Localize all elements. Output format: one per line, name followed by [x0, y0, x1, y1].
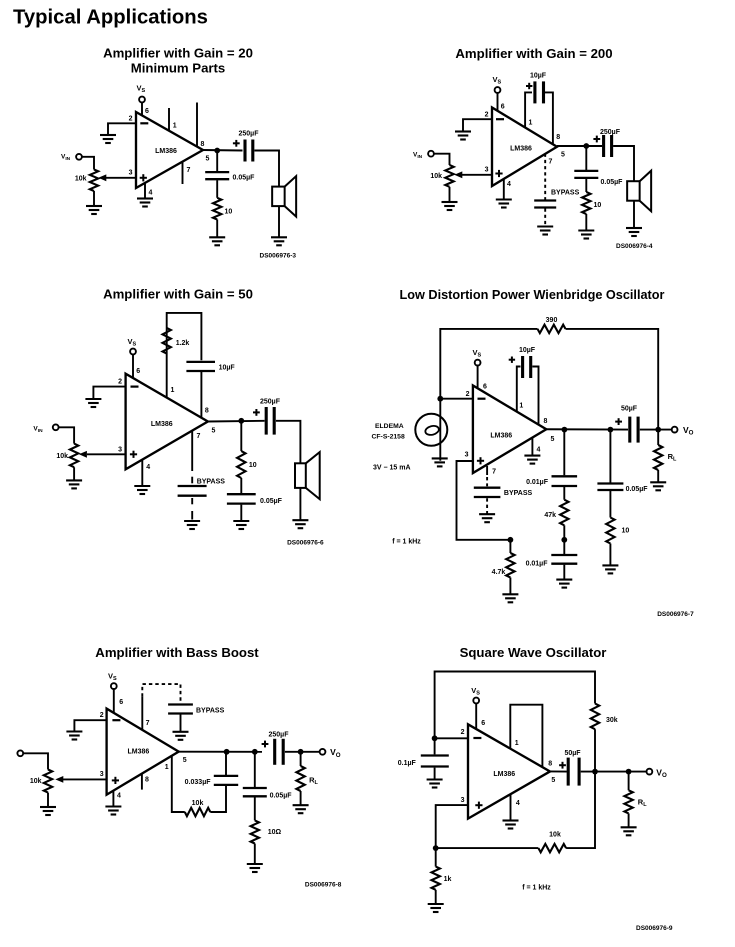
feedback top wire left: [440, 329, 537, 399]
resistor value 10 c2: [594, 202, 602, 209]
svg-text:0.033µF: 0.033µF: [185, 779, 212, 786]
wiper arrowhead c2: [454, 171, 462, 178]
resistor 47k: [560, 500, 568, 526]
speaker c3: [295, 452, 320, 499]
wire node to 4.7k: [509, 540, 511, 553]
svg-text:50µF: 50µF: [564, 750, 581, 757]
svg-text:50µF: 50µF: [621, 406, 638, 413]
figure number DS006976-9: [636, 925, 673, 932]
svg-text:7: 7: [197, 433, 201, 440]
input label VIN: [61, 154, 71, 163]
wire RL to ground c4: [657, 470, 659, 482]
wire pin 3 to wiper c2: [462, 174, 492, 176]
potentiometer value 10k c3: [56, 453, 68, 460]
wire 250uF to speaker c3: [276, 421, 301, 464]
output node junction: [214, 148, 220, 154]
wire pot to ground c5: [47, 793, 49, 807]
svg-text:5: 5: [212, 428, 216, 435]
wire 0.05uF to ground c3: [240, 505, 242, 521]
pin 8 label c5: [145, 777, 149, 784]
RL label c5: [309, 776, 318, 787]
node pin 2 c6: [432, 735, 438, 741]
output wire pin 5: [203, 149, 243, 152]
resistor value 47k: [544, 512, 556, 519]
svg-text:7: 7: [492, 469, 496, 476]
supply label VS: [137, 84, 146, 95]
pin 7 dashed to bypass cap: [544, 154, 546, 200]
non-inverting plus c3: [130, 451, 137, 458]
potentiometer 10k c3: [70, 444, 78, 468]
op-amp label LM386 c5: [128, 749, 150, 756]
pin 6 label c3: [136, 368, 140, 375]
output node RL c6: [626, 769, 632, 775]
pin 3 label c2: [485, 167, 489, 174]
wire node to RL c4: [657, 430, 659, 445]
pin 1 stub: [168, 108, 170, 131]
lamp rating 3V - 15 mA: [373, 464, 411, 471]
capacitor BYPASS c4: [474, 488, 501, 497]
resistor value 10 c3: [249, 462, 257, 469]
capacitor 0.05&#181;F c5: [243, 788, 267, 796]
RL label c6: [638, 798, 647, 809]
svg-text:1: 1: [171, 387, 175, 394]
svg-text:ELDEMA: ELDEMA: [375, 423, 404, 430]
capacitor value 250&#181;F c5: [269, 732, 290, 739]
pin 7 label c2: [549, 159, 553, 166]
ground below bypass c2: [537, 227, 553, 235]
svg-text:1: 1: [165, 764, 169, 771]
pin 6 label c4: [483, 384, 487, 391]
output node 0.033 c5: [224, 749, 230, 755]
capacitor 250&#181;F c5: [275, 739, 284, 765]
svg-text:4: 4: [507, 181, 511, 188]
wire pin 6 to VS: [141, 102, 143, 116]
potentiometer value 10k: [75, 176, 87, 183]
RL label c4: [668, 452, 677, 463]
ground below resistor c2: [578, 231, 594, 239]
svg-text:3V − 15 mA: 3V − 15 mA: [373, 464, 411, 471]
svg-text:3: 3: [100, 771, 104, 778]
bypass label c2: [551, 190, 580, 197]
bottom node c6: [433, 845, 439, 851]
wire resistor 10 to ground c4: [609, 544, 611, 566]
svg-text:8: 8: [145, 777, 149, 784]
inverting minus c4: [478, 398, 486, 400]
capacitor 50&#181;F c6: [568, 758, 579, 786]
pin 4 label c3: [146, 464, 150, 471]
pin 4 stub to ground c4: [531, 438, 533, 456]
wire pin 2 to ground c5: [74, 720, 106, 731]
pin 6 label: [145, 108, 149, 115]
op-amp label LM386 c6: [493, 771, 515, 778]
capacitor 0.05&#181;F c4: [597, 484, 623, 491]
pin 4 label c2: [507, 181, 511, 188]
pin 2 label c6: [461, 729, 465, 736]
wire RL to ground c6: [628, 813, 630, 827]
non-inverting plus c4: [477, 457, 484, 464]
wire node to RL c5: [300, 752, 302, 766]
wire input to potentiometer c5: [23, 753, 48, 769]
pin 2 label c2: [485, 112, 489, 119]
pin 7 stub: [182, 162, 184, 184]
capacitor value 10&#181;F c4: [519, 347, 536, 354]
circuit 5 title: [95, 645, 259, 660]
capacitor 0.05&#181;F c2: [574, 171, 598, 178]
svg-text:4: 4: [516, 800, 520, 807]
wire VIN to potentiometer c3: [59, 427, 75, 443]
capacitor BYPASS c2: [534, 201, 556, 208]
ground below 4.7k: [502, 594, 518, 602]
ground at pin 2 c5: [66, 732, 82, 740]
pin 6 label c2: [501, 104, 505, 111]
svg-text:BYPASS: BYPASS: [504, 490, 533, 497]
polarity plus of 10uF c4: [509, 357, 515, 363]
svg-text:Amplifier with Bass Boost: Amplifier with Bass Boost: [95, 645, 259, 660]
svg-text:10: 10: [249, 462, 257, 469]
capacitor value 0.05&#181;F c5: [270, 793, 293, 800]
pin 8 label c4: [544, 418, 548, 425]
svg-text:0.05µF: 0.05µF: [601, 179, 624, 186]
pin 1 label c3: [171, 387, 175, 394]
svg-text:0.05µF: 0.05µF: [260, 498, 283, 505]
output node B c4: [608, 427, 614, 433]
wire pin 6 to VS c5: [113, 689, 115, 713]
circuit 6 title: [460, 645, 607, 660]
ground below speaker c2: [626, 228, 642, 236]
svg-text:2: 2: [461, 729, 465, 736]
output label VO c5: [330, 747, 341, 759]
wire 50uF to Vo: [640, 429, 672, 431]
op-amp LM386 U2: [492, 108, 557, 187]
wire pin 2 to ground: [108, 123, 136, 135]
input terminal VIN c2: [428, 151, 434, 157]
wire potentiometer to ground: [93, 191, 95, 206]
capacitor value 0.05&#181;F c3: [260, 498, 283, 505]
resistor 30k: [591, 704, 599, 730]
bottom node 47k: [561, 537, 567, 543]
output node feedback c6: [592, 769, 598, 775]
bypass label c3: [197, 479, 226, 486]
resistor RL c4: [654, 445, 662, 470]
inverting minus c3: [131, 386, 139, 388]
svg-text:DS006976-6: DS006976-6: [287, 539, 324, 546]
wire node A to 0.01uF c4: [563, 430, 565, 476]
pin 3 label c4: [465, 452, 469, 459]
bottom rail left c6: [436, 847, 539, 849]
figure number DS006976-8: [305, 881, 342, 888]
capacitor value 0.05&#181;F c2: [601, 179, 624, 186]
pin 5 label c4: [551, 436, 555, 443]
input terminal VIN c3: [53, 424, 59, 430]
ground below speaker c3: [292, 520, 308, 528]
pin 8 stub c5: [141, 774, 143, 790]
inverting minus c6: [473, 737, 481, 739]
ground at pin 4 c4: [524, 456, 540, 464]
circuit 3 title: [103, 287, 253, 302]
pin 4 stub to ground c3: [141, 460, 143, 486]
svg-text:1: 1: [529, 120, 533, 127]
op-amp LM386 U1: [136, 112, 203, 188]
svg-text:0.05µF: 0.05µF: [626, 486, 649, 493]
svg-text:10k: 10k: [549, 832, 561, 839]
wire node to RL c6: [628, 772, 630, 791]
svg-text:7: 7: [549, 159, 553, 166]
svg-text:CF-S-2158: CF-S-2158: [372, 434, 405, 441]
inverting minus c5: [112, 719, 120, 721]
pin 7 dash segment c3: [191, 477, 193, 484]
rail to 0.033uF c5: [210, 785, 226, 812]
pin 5 label c3: [212, 428, 216, 435]
pin 5 label c2: [561, 152, 565, 159]
figure number DS006976-4: [616, 243, 653, 250]
ground below potentiometer c2: [442, 202, 458, 210]
pin 2 label c5: [100, 712, 104, 719]
resistor value 1k: [444, 876, 452, 883]
top wire 1.2k to 10uF: [167, 313, 202, 398]
speaker: [272, 176, 296, 217]
wire node to 0.1uF c6: [434, 738, 436, 754]
ground below RL c5: [293, 805, 309, 813]
wire 1k to ground c6: [435, 890, 437, 904]
ground below potentiometer c3: [66, 480, 82, 488]
pin 7 label c3: [197, 433, 201, 440]
capacitor value 250&#181;F c2: [600, 129, 621, 136]
pin 3 label c6: [461, 797, 465, 804]
svg-text:10: 10: [225, 209, 233, 216]
polarity plus of 10uF: [526, 83, 532, 89]
pin 3 label c3: [118, 447, 122, 454]
supply terminal VS c2: [495, 87, 501, 93]
capacitor value 0.033&#181;F: [185, 779, 212, 786]
circuit 4 title: [400, 288, 665, 302]
supply label VS c5: [108, 672, 117, 683]
input terminal VIN: [76, 154, 82, 160]
wire pin 3 to wiper c3: [87, 453, 126, 455]
supply label VS c4: [473, 348, 482, 359]
capacitor value 0.1&#181;F: [398, 760, 417, 767]
output node c3: [238, 418, 244, 424]
wire pin 6 to VS c3: [132, 354, 134, 378]
output node A c4: [562, 427, 568, 433]
svg-text:5: 5: [206, 156, 210, 163]
capacitor value 10&#181;F c3: [219, 365, 236, 372]
output label VO c4: [683, 425, 694, 437]
capacitor 250&#181;F c2: [604, 135, 612, 157]
resistor value 30k: [606, 717, 618, 724]
wire 50uF to Vo c6: [581, 771, 647, 773]
svg-text:1: 1: [173, 123, 177, 130]
ground below 0.01uF lower: [556, 580, 572, 588]
svg-text:DS006976-3: DS006976-3: [260, 253, 297, 260]
svg-text:0.01µF: 0.01µF: [526, 560, 549, 567]
output terminal Vo c5: [320, 749, 326, 755]
pin 6 label c6: [481, 720, 485, 727]
wire 4.7k to ground: [509, 578, 511, 595]
wire speaker to ground: [278, 206, 280, 237]
svg-text:Square Wave Oscillator: Square Wave Oscillator: [460, 645, 607, 660]
pin 1 down to rail c5: [172, 756, 185, 812]
ground below resistor 10 c4: [602, 565, 618, 573]
wire node to 0.05uF c5: [254, 752, 256, 787]
resistor 1.2k: [163, 328, 171, 354]
svg-text:4: 4: [149, 190, 153, 197]
pin 1 to pin 8 bracket: [510, 705, 542, 767]
potentiometer 10k: [90, 170, 98, 192]
resistor 4.7k: [506, 553, 514, 578]
ground below RL c6: [621, 827, 637, 835]
capacitor BYPASS c5: [168, 705, 193, 714]
polarity plus of 250uF c3: [253, 409, 260, 416]
10uF right plate to pin 8: [544, 92, 553, 143]
polarity plus of 250uF c5: [262, 741, 269, 748]
pin 7 dashed to bypass c5: [142, 684, 180, 703]
pin 7 stub up c5: [141, 697, 143, 730]
svg-text:7: 7: [187, 167, 191, 174]
pin 7 label c4: [492, 469, 496, 476]
pin 1 label c5: [165, 764, 169, 771]
pin 5 label c6: [551, 777, 555, 784]
wire junction through lamp to ground: [439, 399, 441, 461]
output terminal Vo c6: [647, 769, 653, 775]
figure number DS006976-3: [260, 253, 297, 260]
svg-text:Minimum Parts: Minimum Parts: [131, 60, 226, 75]
wire node to 0.05uF c2: [585, 146, 587, 170]
circuit 1 title line 1: [103, 45, 253, 60]
bottom node 4.7k: [508, 537, 514, 543]
svg-text:6: 6: [136, 368, 140, 375]
svg-text:BYPASS: BYPASS: [197, 479, 226, 486]
bypass label c4: [504, 490, 533, 497]
pin 4 stub to ground c6: [510, 794, 512, 821]
capacitor 10&#181;F c4: [523, 356, 531, 378]
svg-text:Typical Applications: Typical Applications: [13, 7, 208, 29]
svg-text:10µF: 10µF: [530, 73, 547, 80]
wire resistor 10 to ground: [216, 220, 218, 238]
bottom rail right c6: [566, 772, 595, 849]
output node RL c5: [298, 749, 304, 755]
svg-text:2: 2: [100, 712, 104, 719]
resistor 10k feedback: [185, 808, 211, 816]
wire 250uF to speaker c2: [613, 146, 634, 181]
output wire pin 5 c5: [179, 751, 262, 753]
top rail c6: [435, 672, 595, 739]
svg-text:4.7k: 4.7k: [492, 569, 506, 576]
resistor 390: [538, 325, 566, 333]
svg-text:390: 390: [546, 317, 558, 324]
svg-text:LM386: LM386: [151, 421, 173, 428]
wire pot to ground c3: [73, 467, 75, 480]
ground at pin 4 c6: [503, 821, 519, 829]
inverting input minus sign: [140, 122, 148, 124]
polarity plus of 250uF: [233, 140, 240, 147]
resistor value 10k feedback: [192, 800, 204, 807]
op-amp LM386 U5: [107, 709, 179, 795]
input label VIN c3: [33, 426, 43, 435]
svg-text:BYPASS: BYPASS: [196, 708, 225, 715]
op-amp label LM386: [155, 148, 177, 155]
ground below 1k c6: [428, 904, 444, 912]
svg-text:Amplifier with Gain = 50: Amplifier with Gain = 50: [103, 287, 253, 302]
resistor value 10k c6: [549, 832, 561, 839]
wire 0.01uF to 47k: [563, 487, 565, 500]
svg-text:250µF: 250µF: [600, 129, 621, 136]
svg-text:LM386: LM386: [155, 148, 177, 155]
ground below bypass c3: [184, 521, 200, 529]
pin 4 label c5: [117, 793, 121, 800]
wiper arrowhead: [98, 174, 106, 181]
wire pin 6 to VS c4: [477, 365, 479, 388]
op-amp LM386 U3: [126, 374, 208, 470]
node pin 2 lamp junction: [437, 396, 443, 402]
pin 6 label c5: [119, 699, 123, 706]
non-inverting plus c2: [495, 170, 502, 177]
output wire pin 5 c3: [208, 420, 265, 423]
pin 8 label: [201, 141, 205, 148]
svg-text:BYPASS: BYPASS: [551, 190, 580, 197]
resistor RL c6: [624, 790, 632, 813]
svg-text:30k: 30k: [606, 717, 618, 724]
pin 4 stub to ground c5: [112, 791, 114, 807]
wire RL to ground c5: [300, 791, 302, 805]
op-amp label LM386 c4: [490, 432, 512, 439]
svg-text:DS006976-4: DS006976-4: [616, 243, 653, 250]
svg-text:10k: 10k: [430, 173, 442, 180]
circuit 1 title line 2: [131, 60, 226, 75]
output terminal Vo c4: [672, 427, 678, 433]
resistor 1k: [432, 867, 440, 890]
svg-text:DS006976-9: DS006976-9: [636, 925, 673, 932]
supply label VS c6: [471, 686, 480, 697]
svg-text:8: 8: [544, 418, 548, 425]
potentiometer value 10k c5: [30, 778, 42, 785]
capacitor value 10&#181;F: [530, 73, 547, 80]
supply terminal VS c3: [130, 349, 136, 355]
capacitor value 250&#181;F c3: [260, 398, 281, 405]
wire junction to pin 2: [440, 398, 473, 400]
output wire pin 5 c2: [557, 145, 602, 147]
wire pin 6 to VS c6: [475, 703, 477, 729]
svg-text:10µF: 10µF: [519, 347, 536, 354]
capacitor 250&#181;F: [245, 140, 253, 162]
input label VIN c2: [413, 152, 423, 161]
pin 7 label c5: [146, 720, 150, 727]
pin 8 label c3: [205, 408, 209, 415]
svg-text:10: 10: [622, 528, 630, 535]
resistor 10&#937; c5: [251, 820, 259, 843]
wire resistor to 0.05uF c3: [240, 478, 242, 493]
pin 1 to 10uF left plate c4: [517, 367, 521, 412]
svg-text:f = 1 kHz: f = 1 kHz: [392, 539, 421, 546]
capacitor BYPASS c3: [178, 486, 207, 496]
svg-text:2: 2: [129, 116, 133, 123]
pin 7 dashed to bypass cap c4: [486, 477, 488, 486]
svg-text:Amplifier with Gain = 200: Amplifier with Gain = 200: [455, 46, 612, 61]
capacitor 0.05&#181;F c3: [227, 494, 256, 503]
capacitor value 50&#181;F c6: [564, 750, 581, 757]
polarity plus of 250uF c2: [593, 136, 600, 143]
bypass to ground c5: [180, 715, 182, 732]
ground below speaker: [271, 237, 287, 245]
circuit 2 title: [455, 46, 612, 61]
svg-text:Low Distortion Power Wienbridg: Low Distortion Power Wienbridge Oscillat…: [400, 288, 665, 302]
ground at pin 4 c2: [496, 200, 512, 208]
pin 5 label c5: [183, 757, 187, 764]
svg-text:0.05µF: 0.05µF: [233, 175, 256, 182]
ground at pin 2 c2: [455, 132, 471, 140]
supply label VS c3: [128, 337, 137, 348]
0.1uF to ground c6: [434, 768, 436, 780]
pin 2 label: [129, 116, 133, 123]
